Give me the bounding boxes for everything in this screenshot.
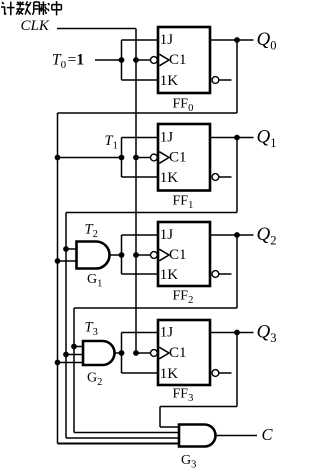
svg-text:1J: 1J [160, 324, 174, 340]
svg-text:C: C [262, 425, 274, 444]
svg-text:1J: 1J [160, 227, 174, 243]
svg-text:1J: 1J [160, 129, 174, 145]
svg-text:1K: 1K [160, 170, 179, 186]
svg-text:C1: C1 [169, 52, 187, 68]
svg-text:1K: 1K [160, 366, 179, 382]
svg-text:T0=1: T0=1 [52, 52, 84, 72]
svg-text:C1: C1 [169, 247, 187, 263]
svg-text:1J: 1J [160, 32, 174, 48]
svg-text:CLK: CLK [21, 18, 50, 34]
svg-text:C1: C1 [169, 345, 187, 361]
svg-text:C1: C1 [169, 150, 187, 166]
svg-text:1K: 1K [160, 267, 179, 283]
svg-text:1K: 1K [160, 73, 179, 89]
